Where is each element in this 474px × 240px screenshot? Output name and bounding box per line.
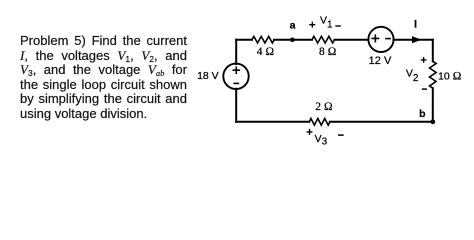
wire: between 8 ohm and 12V source	[335, 39, 369, 41]
wire: right vertical lower segment	[432, 88, 434, 122]
label + inside 12V	[372, 35, 378, 41]
svg-text:12 V: 12 V	[369, 55, 392, 67]
label + of V1	[310, 22, 315, 27]
label - inside 12V	[386, 38, 390, 40]
svg-text:8 Ω: 8 Ω	[319, 46, 337, 58]
svg-text:b: b	[419, 108, 425, 120]
problem statement text	[20, 34, 187, 121]
label - of V1	[336, 25, 340, 27]
svg-text:I: I	[414, 19, 417, 31]
resistor 10 ohm (vertical)	[429, 61, 436, 88]
wire: between 4 ohm and 8 ohm through node a	[274, 39, 312, 41]
current arrowhead I	[412, 36, 421, 43]
wire: 12V source to top-right corner	[394, 39, 433, 41]
wire: left vertical lower segment	[235, 89, 237, 122]
wire: left vertical upper segment	[235, 40, 237, 64]
wire: top-left horizontal segment	[236, 39, 252, 41]
wire: bottom right segment	[330, 121, 433, 123]
resistor 4 ohm	[252, 36, 274, 43]
resistor 8 ohm	[312, 36, 335, 43]
label - inside 18V	[234, 82, 238, 84]
label + of V3	[307, 130, 312, 135]
svg-text:4 Ω: 4 Ω	[257, 46, 275, 58]
svg-text:10 Ω: 10 Ω	[438, 71, 462, 83]
label - of V2	[423, 88, 427, 90]
svg-text:V3: V3	[315, 133, 328, 148]
label - of V3	[339, 134, 343, 136]
svg-text:18 V: 18 V	[197, 70, 219, 82]
node a junction dot	[290, 38, 295, 43]
label + of V2	[421, 58, 425, 62]
svg-text:2 Ω: 2 Ω	[315, 101, 333, 113]
svg-text:V1: V1	[320, 15, 333, 31]
label + inside 18V	[233, 67, 239, 73]
wire: bottom left segment	[236, 121, 309, 123]
svg-text:V2: V2	[406, 68, 419, 84]
svg-text:a: a	[290, 20, 296, 32]
voltage source 18V circle	[223, 64, 248, 89]
voltage source 12V circle	[368, 27, 393, 52]
node b junction dot	[430, 119, 435, 124]
resistor 2 ohm	[309, 119, 330, 126]
wire: right vertical upper segment	[432, 40, 434, 62]
